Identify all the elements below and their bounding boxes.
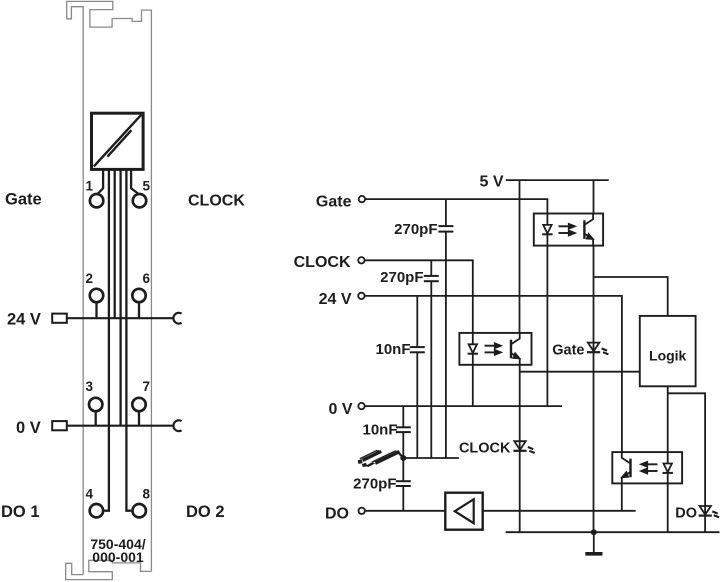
svg-text:8: 8 [143, 486, 151, 501]
svg-text:Gate: Gate [552, 343, 584, 359]
svg-text:0 V: 0 V [16, 419, 41, 437]
svg-text:1: 1 [85, 179, 93, 194]
svg-text:Gate: Gate [316, 194, 352, 211]
svg-text:Logik: Logik [649, 348, 687, 364]
svg-text:5 V: 5 V [479, 173, 503, 190]
svg-text:24 V: 24 V [319, 291, 352, 308]
svg-text:Gate: Gate [5, 191, 42, 209]
svg-text:10nF: 10nF [375, 341, 410, 358]
svg-text:24 V: 24 V [7, 311, 41, 329]
svg-text:6: 6 [143, 271, 151, 286]
svg-text:CLOCK: CLOCK [188, 193, 245, 210]
svg-text:270pF: 270pF [394, 221, 437, 238]
svg-text:7: 7 [143, 379, 151, 394]
svg-text:2: 2 [85, 271, 93, 286]
svg-text:DO 1: DO 1 [1, 503, 40, 521]
svg-text:DO: DO [675, 505, 697, 521]
svg-text:4: 4 [85, 486, 93, 501]
svg-text:10nF: 10nF [362, 421, 397, 438]
svg-text:DO 2: DO 2 [186, 503, 225, 521]
svg-text:0 V: 0 V [328, 401, 352, 418]
svg-text:CLOCK: CLOCK [294, 254, 351, 271]
svg-text:DO: DO [325, 505, 349, 522]
svg-text:CLOCK: CLOCK [459, 440, 511, 456]
svg-text:270pF: 270pF [380, 269, 423, 286]
svg-text:3: 3 [85, 379, 93, 394]
svg-text:000-001: 000-001 [92, 549, 144, 565]
svg-text:5: 5 [143, 179, 151, 194]
svg-text:270pF: 270pF [353, 476, 396, 493]
